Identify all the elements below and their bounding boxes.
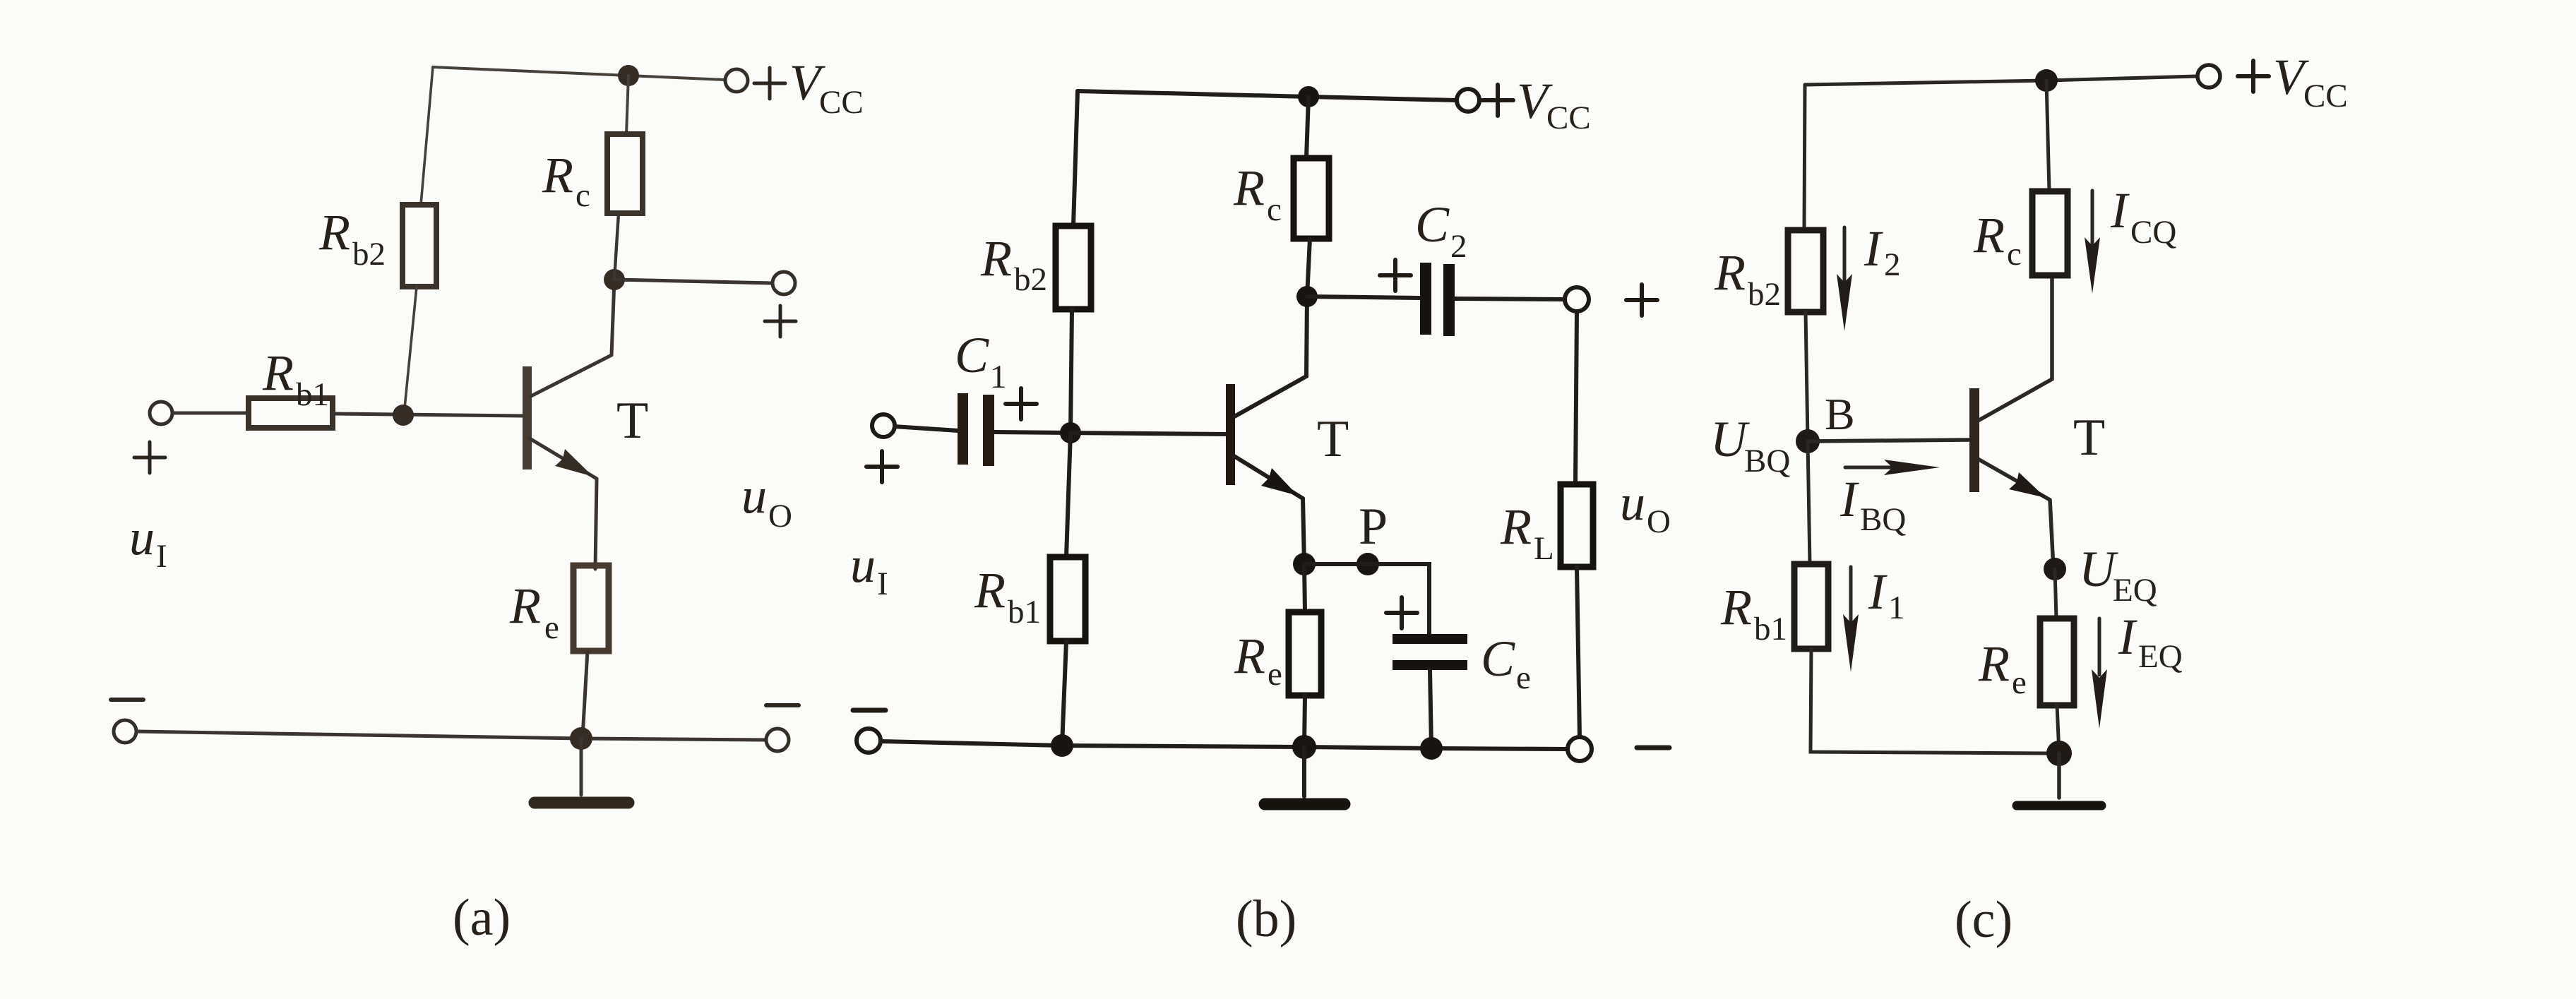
wire: Ce bottom to rail (b) [1430, 670, 1431, 747]
resistor Re (c) [2040, 618, 2074, 705]
label minus left (a) [111, 698, 143, 702]
node: UEQ dot (c) [2044, 558, 2066, 580]
wire: C1 to base node (b) [994, 432, 1071, 433]
resistor Re (a) [573, 566, 609, 651]
current arrow ICQ (c) [2085, 191, 2100, 294]
wire: emitter node to Re (b) [1304, 564, 1305, 612]
label Rb2 (c) [1714, 244, 1781, 313]
svg-text:R: R [1720, 579, 1752, 635]
current arrow IEQ (c) [2092, 618, 2107, 729]
label C1 (b) [955, 327, 1007, 395]
resistor RL (b) [1561, 484, 1593, 567]
svg-text:e: e [2012, 664, 2027, 701]
wire: Rc bottom to collector node (a) [614, 213, 619, 280]
ground (c) [2017, 753, 2101, 806]
current arrow IBQ (c) [1845, 460, 1940, 475]
svg-text:2: 2 [1884, 246, 1901, 283]
svg-text:I: I [877, 566, 888, 602]
svg-text:R: R [1973, 207, 2005, 263]
terminal output (a) [773, 272, 795, 294]
svg-text:(c): (c) [1955, 891, 2012, 949]
wire: Rb2 branch top (b) [1073, 91, 1078, 226]
svg-text:BQ: BQ [1744, 443, 1790, 479]
svg-text:T: T [616, 392, 648, 450]
capacitor C2 (b) [1420, 263, 1455, 336]
label Re (a) [509, 578, 559, 646]
label I2 (c) [1864, 220, 1901, 283]
svg-text:u: u [1620, 474, 1645, 531]
node: top junction dot (c) [2035, 69, 2058, 92]
svg-text:(b): (b) [1236, 890, 1296, 948]
label minus right (a) [766, 703, 799, 707]
resistor Rb2 (c) [1788, 230, 1823, 312]
label Rb2 (a) [318, 204, 386, 273]
wire: bottom rail (a) [137, 731, 765, 740]
resistor Rb1 (c) [1794, 564, 1828, 649]
label + output (b) [1626, 285, 1657, 316]
wire: node B to transistor base (c) [1808, 440, 1969, 441]
node: base junction dot (b) [1060, 422, 1081, 443]
svg-text:u: u [741, 467, 767, 524]
label uO (a) [741, 467, 792, 534]
capacitor C1 (b) [958, 393, 994, 466]
svg-text:R: R [1500, 498, 1532, 555]
svg-text:T: T [2073, 409, 2105, 467]
svg-text:b2: b2 [1014, 261, 1047, 298]
svg-text:C: C [1415, 196, 1450, 253]
wire: Rb2 top vertical (a) [421, 67, 433, 205]
ground (b) [1265, 747, 1344, 804]
svg-text:R: R [318, 204, 350, 261]
transistor T base bar (c) [1969, 388, 1979, 492]
capacitor Ce (b) [1393, 634, 1467, 670]
terminal +Vcc (c) [2198, 65, 2220, 88]
wire: bottom rail (b) [881, 741, 1567, 749]
svg-text:1: 1 [990, 359, 1007, 395]
label C2 (b) [1415, 196, 1467, 265]
svg-text:u: u [850, 537, 876, 593]
terminal output (b) [1565, 287, 1589, 311]
svg-text:R: R [974, 562, 1006, 618]
wire: Rc branch top (c) [2046, 80, 2049, 191]
wire: C2 to output terminal (b) [1455, 299, 1565, 299]
node: collector output dot (a) [604, 269, 625, 290]
wire: output terminal down to RL (b) [1575, 311, 1577, 484]
label IEQ (c) [2118, 609, 2183, 675]
terminal bottom-left (b) [857, 729, 881, 753]
node: emitter junction dot (b) [1293, 553, 1316, 575]
label Re (c) [1978, 635, 2027, 701]
wire: input to C1 (b) [895, 426, 958, 431]
transistor T emitter with arrow (b) [1233, 455, 1304, 564]
svg-text:b1: b1 [1754, 611, 1787, 647]
wire: top rail (a) to +Vcc [433, 67, 724, 80]
label + input (a) [134, 442, 165, 473]
resistor Rc (c) [2032, 191, 2068, 275]
node: collector junction dot (b) [1296, 286, 1318, 307]
svg-text:R: R [1233, 160, 1265, 216]
wire: Rb2 bottom to node B (c) [1806, 312, 1808, 441]
svg-text:CQ: CQ [2130, 214, 2176, 251]
terminal bottom-left (a) [114, 720, 136, 743]
label minus right (b) [1637, 746, 1669, 750]
wire: Rb2 branch top (c) [1804, 85, 1805, 230]
node P dot (b) [1356, 553, 1379, 575]
wire: emitter node to Ce corner (b) [1304, 564, 1429, 634]
label Rb2 (b) [980, 230, 1047, 298]
svg-text:BQ: BQ [1860, 501, 1906, 538]
label Rc (a) [542, 147, 590, 214]
svg-text:EQ: EQ [2113, 572, 2157, 609]
node B dot (c) [1796, 429, 1820, 453]
transistor T base bar (a) [523, 366, 532, 469]
wire: Rb1 bottom to rail (b) [1062, 641, 1066, 746]
transistor T collector (a) [531, 280, 614, 396]
wire: base node to transistor (b) [1071, 433, 1227, 434]
svg-text:R: R [542, 147, 573, 203]
node: ground rail dot (b) [1292, 735, 1316, 759]
transistor T collector (c) [1978, 277, 2052, 421]
wire: Rc to collector node (b) [1307, 239, 1310, 297]
wire: collector node to C2 (b) [1307, 297, 1420, 298]
label Ce (b) [1481, 630, 1531, 696]
label +Vcc (a) [754, 54, 864, 121]
label uI (b) [850, 537, 888, 602]
label + of Ce (b) [1386, 597, 1417, 628]
node: Ce rail dot (b) [1420, 737, 1443, 760]
node: top junction dot (a) [618, 65, 639, 86]
wire: Rb1 branch (c) [1808, 441, 1810, 564]
node: base junction dot (a) [393, 405, 414, 426]
resistor Rb2 (a) [402, 205, 436, 287]
label uI (a) [129, 509, 167, 575]
svg-text:CC: CC [1546, 100, 1591, 136]
label Rc (b) [1233, 160, 1282, 228]
svg-text:L: L [1534, 530, 1554, 567]
svg-text:b2: b2 [352, 236, 386, 273]
terminal +Vcc (b) [1457, 89, 1479, 112]
svg-text:R: R [980, 230, 1012, 287]
node: bottom junction dot (a) [570, 727, 592, 750]
terminal bottom-right (b) [1568, 737, 1592, 761]
resistor Rb2 (b) [1056, 226, 1091, 309]
resistor Rb1 (a) [249, 398, 333, 428]
wire: Re bottom to ground dot (c) [2057, 705, 2059, 753]
label UBQ (c) [1710, 411, 1790, 479]
svg-text:R: R [262, 345, 294, 401]
current arrow I2 (c) [1837, 227, 1852, 331]
label I1 (c) [1868, 563, 1905, 626]
ground (a) [535, 738, 628, 803]
svg-text:1: 1 [1888, 590, 1905, 626]
transistor T emitter with arrow (a) [530, 438, 597, 569]
label + of C1 (b) [1006, 388, 1037, 419]
svg-text:(a): (a) [453, 889, 511, 947]
label ICQ (c) [2110, 182, 2176, 251]
label +Vcc (b) [1482, 73, 1591, 136]
label +Vcc (c) [2238, 49, 2348, 114]
resistor Rc (a) [607, 134, 643, 213]
svg-text:u: u [129, 509, 155, 566]
svg-text:R: R [509, 578, 541, 634]
svg-text:CC: CC [819, 84, 864, 121]
svg-text:O: O [1647, 503, 1671, 540]
svg-text:I: I [1839, 471, 1859, 527]
svg-text:C: C [955, 327, 989, 383]
label + of C2 (b) [1380, 260, 1411, 291]
wire: top rail (b) to +Vcc [1078, 91, 1455, 100]
svg-text:2: 2 [1450, 228, 1467, 265]
svg-text:c: c [1267, 191, 1282, 228]
svg-text:I: I [2118, 609, 2137, 665]
node: Rb1 rail dot (b) [1051, 734, 1073, 757]
svg-text:I: I [1868, 563, 1888, 620]
transistor T base bar (b) [1226, 384, 1235, 485]
svg-text:b2: b2 [1748, 276, 1781, 313]
svg-text:I: I [156, 538, 167, 575]
label Rb1 (b) [974, 562, 1041, 630]
transistor T collector (b) [1234, 297, 1307, 417]
transistor T emitter with arrow (c) [1978, 459, 2053, 569]
svg-text:b1: b1 [296, 376, 329, 413]
label Rc (c) [1973, 207, 2022, 273]
svg-text:B: B [1825, 389, 1855, 439]
wire: Rb1 branch (b) [1066, 433, 1071, 557]
terminal bottom-right (a) [766, 729, 789, 751]
wire: top rail (c) to +Vcc [1805, 76, 2197, 85]
label Re (b) [1234, 628, 1282, 693]
resistor Rb1 (b) [1050, 557, 1085, 641]
wire: RL bottom to terminal (b) [1577, 567, 1580, 737]
label RL (b) [1500, 498, 1554, 567]
wire: Re bottom to rail (b) [1304, 695, 1305, 747]
wire: Rc branch (a) [626, 76, 628, 134]
wire: Rc branch (b) [1306, 97, 1308, 158]
svg-text:C: C [1481, 630, 1515, 687]
wire: Rb2 bottom to base node (b) [1071, 309, 1072, 433]
svg-text:EQ: EQ [2138, 638, 2183, 675]
svg-text:R: R [1234, 628, 1265, 684]
node: top junction dot (b) [1298, 86, 1319, 107]
svg-text:e: e [1516, 659, 1531, 696]
wire: Rb1 bottom to rail corner (c) [1811, 649, 2047, 753]
resistor Re (b) [1289, 612, 1321, 695]
resistor Rc (b) [1294, 158, 1329, 239]
wire: output node to terminal (a) [614, 280, 772, 283]
wire: input to Rb1 (a) [172, 412, 249, 415]
label UEQ (c) [2079, 541, 2157, 609]
svg-text:c: c [576, 177, 590, 214]
svg-text:T: T [1317, 410, 1349, 468]
node: ground dot (c) [2046, 741, 2072, 766]
label Rb1 (a) [262, 345, 329, 413]
svg-text:I: I [2110, 182, 2130, 239]
label Rb1 (c) [1720, 579, 1787, 647]
svg-text:e: e [544, 609, 559, 646]
label + input (b) [866, 451, 898, 482]
svg-text:O: O [768, 498, 792, 534]
wire: Re bottom to ground rail (a) [583, 651, 588, 737]
label uO (b) [1620, 474, 1671, 540]
svg-text:I: I [1864, 220, 1883, 277]
label minus left (b) [853, 708, 885, 713]
svg-text:e: e [1268, 656, 1282, 693]
svg-text:c: c [2007, 236, 2022, 273]
terminal input (a) [150, 402, 172, 424]
svg-text:P: P [1359, 498, 1388, 556]
svg-text:CC: CC [2303, 78, 2348, 114]
current arrow I1 (c) [1843, 567, 1859, 672]
svg-text:b1: b1 [1008, 594, 1041, 630]
terminal +Vcc (a) [725, 69, 748, 92]
svg-text:R: R [1714, 244, 1746, 301]
label IBQ (c) [1839, 471, 1906, 538]
wire: UEQ dot to Re (c) [2055, 569, 2056, 618]
terminal input (b) [872, 414, 895, 437]
wire: Rb1 to base (a) [333, 414, 523, 416]
label + output (a) [765, 306, 796, 337]
svg-text:R: R [1978, 635, 2010, 692]
wire: Rb2 bottom to base node (a) [404, 287, 417, 415]
